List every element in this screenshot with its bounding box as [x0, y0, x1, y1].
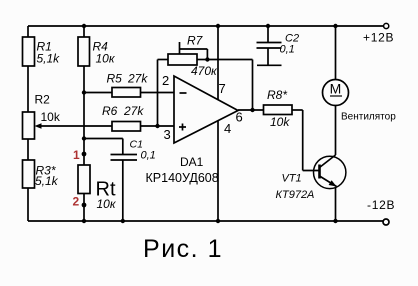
wire: R2 wiper to R6 [38, 125, 112, 127]
wire: to VT1 base [303, 170, 320, 172]
transistor VT1 circle [314, 156, 346, 188]
node: thermistor terminal 2 [82, 203, 87, 208]
svg-text:VT1: VT1 [282, 173, 302, 185]
node: bottom rail / C1 [121, 219, 125, 223]
wire: +12V top rail [28, 25, 384, 27]
node: divider to R5 [82, 90, 86, 94]
wire: motor to VT1 collector [335, 106, 337, 156]
svg-text:-12В: -12В [367, 198, 395, 212]
svg-text:C1: C1 [130, 138, 143, 150]
svg-text:1: 1 [73, 148, 80, 162]
svg-text:7: 7 [219, 81, 226, 96]
wire: R1 to R2 [27, 66, 29, 112]
svg-text:М: М [330, 81, 342, 97]
wire: R5 to op-amp pin 2 [141, 92, 175, 94]
svg-text:0,1: 0,1 [280, 44, 295, 56]
svg-text:4: 4 [224, 121, 231, 136]
node: top rail / R4 [82, 24, 86, 28]
wire: pin 7 to +12V rail [217, 26, 219, 100]
wire: op-amp output to R8 [238, 109, 263, 111]
op-amp minus input mark [180, 92, 187, 94]
svg-text:2: 2 [162, 73, 169, 88]
resistor R1 [23, 37, 35, 66]
resistor R4 [78, 37, 90, 66]
wire: R7 right lead [197, 59, 207, 61]
node: top rail / pin7 [216, 24, 220, 28]
node: feedback / pin 3 [155, 124, 159, 128]
svg-text:10к: 10к [96, 52, 116, 66]
wire: R6 to op-amp pin 3 [141, 125, 175, 127]
op-amp plus input mark [179, 126, 186, 128]
wire: motor top lead [335, 26, 337, 80]
wire: R7 wiper link [180, 48, 208, 50]
capacitor C2 bottom lead [267, 48, 269, 65]
transistor VT1 base bar [318, 165, 321, 179]
capacitor C1 bottom plate [111, 159, 138, 161]
wire: R8 to corner [292, 109, 303, 111]
svg-text:27k: 27k [127, 72, 148, 86]
capacitor C2 top plate [257, 42, 282, 44]
svg-text:3: 3 [164, 127, 171, 142]
wire: R3 to bottom rail [27, 188, 29, 221]
svg-text:+12В: +12В [363, 31, 394, 45]
terminal +12V [384, 23, 389, 28]
wire: C1 to bottom rail [122, 160, 124, 221]
svg-text:R7: R7 [187, 34, 204, 48]
svg-text:10k: 10k [41, 110, 61, 124]
svg-text:27k: 27k [123, 104, 144, 118]
svg-text:КТ972А: КТ972А [276, 189, 315, 201]
svg-text:5,1k: 5,1k [35, 174, 59, 188]
op-amp DA1 triangle [174, 76, 238, 143]
wire: down to base level [302, 110, 304, 171]
capacitor C2 bottom plate [257, 47, 282, 49]
wire: R2 to R3 [27, 139, 29, 160]
potentiometer R2 [23, 112, 35, 139]
svg-text:0,1: 0,1 [141, 150, 156, 162]
svg-text:Вентилятор: Вентилятор [341, 111, 396, 122]
wire: R1 top lead [27, 26, 29, 37]
resistor R5 [112, 88, 141, 98]
svg-text:5,1k: 5,1k [37, 52, 61, 66]
transistor VT1 collector stroke [320, 155, 336, 168]
wire: -12V bottom rail [28, 220, 383, 222]
motor M underline [330, 95, 342, 97]
resistor R6 [112, 122, 141, 132]
resistor R3* [23, 160, 35, 188]
svg-text:R2: R2 [35, 93, 51, 107]
svg-text:КР140УД608: КР140УД608 [146, 171, 219, 185]
resistor R8* [264, 105, 293, 115]
wire: emitter to bottom rail [335, 187, 337, 221]
node: top rail / motor [333, 24, 337, 28]
node: bottom rail / Rt [82, 219, 86, 223]
trimmer R7 body [168, 54, 197, 65]
svg-text:6: 6 [236, 110, 243, 125]
svg-text:R5: R5 [107, 72, 123, 86]
node: top rail / C2 [266, 24, 270, 28]
svg-text:R8*: R8* [267, 88, 287, 102]
wire: C1 branch horizontal [84, 138, 123, 140]
wire: feedback down to pin 3 [157, 60, 159, 127]
svg-text:2: 2 [73, 195, 80, 209]
wire: C1 top lead [122, 139, 124, 155]
svg-text:10k: 10k [270, 115, 290, 129]
transistor VT1 emitter stroke [320, 176, 337, 187]
wire: feedback to output, horizontal [207, 59, 252, 61]
wire: R4 top lead [83, 26, 85, 37]
svg-text:10к: 10к [97, 197, 117, 211]
terminal -12V [383, 219, 389, 225]
svg-text:R6: R6 [102, 104, 118, 118]
wire: feedback to output, vertical [252, 60, 254, 111]
node: divider to C1 [82, 136, 86, 140]
node: feedback / output [250, 108, 254, 112]
svg-text:Рис. 1: Рис. 1 [143, 235, 223, 263]
wire: Rt to bottom rail [83, 194, 85, 222]
node: thermistor terminal 1 [82, 152, 87, 157]
wire: R7 left lead [158, 59, 169, 61]
node: bottom rail / emitter [333, 219, 337, 223]
wire: R4 column down to Rt [83, 66, 85, 165]
capacitor C2 top lead [267, 26, 269, 43]
capacitor C1 top plate [111, 154, 138, 156]
node: bottom rail / pin4 [216, 219, 220, 223]
node: R7 right lead [205, 57, 209, 61]
wire: pin 4 to -12V rail [217, 121, 219, 221]
wire: divider node to R5 [84, 92, 112, 94]
svg-text:470к: 470к [191, 64, 218, 78]
trimmer R7 wiper tick [179, 42, 181, 54]
R2 wiper arrow head [35, 123, 42, 129]
thermistor Rt [78, 165, 90, 194]
VT1 emitter arrow head [329, 180, 337, 186]
motor M circle [323, 80, 349, 106]
capacitor C2 bottom bar [257, 64, 282, 66]
svg-text:DA1: DA1 [180, 155, 204, 169]
